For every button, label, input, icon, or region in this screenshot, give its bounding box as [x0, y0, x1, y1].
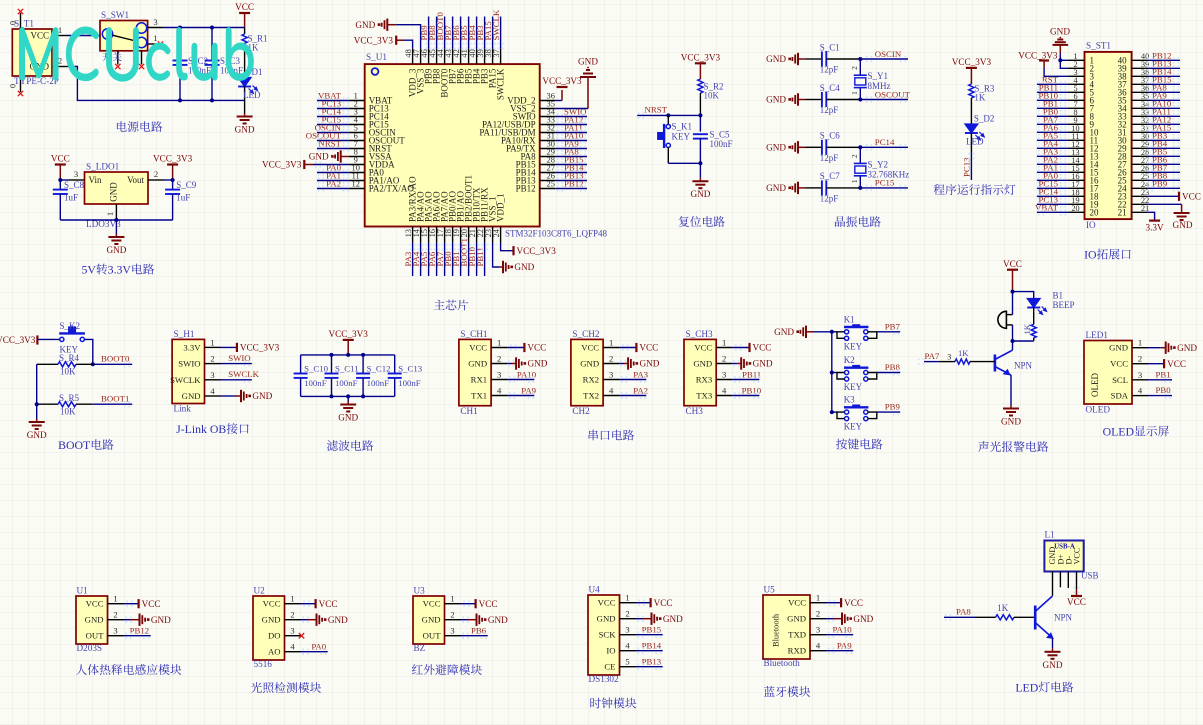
- net label PA4 below U1: [411, 243, 424, 276]
- capacitor S_C1 12pF: [806, 52, 860, 67]
- svg-text:S_C11: S_C11: [335, 364, 359, 374]
- svg-text:GND: GND: [182, 391, 201, 401]
- capacitor S_C12 100nF: [356, 355, 390, 397]
- svg-text:K2: K2: [844, 355, 855, 365]
- capacitor S_C9 1uF: [165, 180, 197, 220]
- svg-text:2: 2: [497, 354, 501, 364]
- svg-text:LED: LED: [243, 90, 261, 100]
- svg-text:USB: USB: [1081, 571, 1099, 581]
- junction at OSCOUT: [858, 98, 862, 102]
- LED S_D2: [965, 114, 995, 153]
- svg-text:NRST: NRST: [319, 138, 342, 148]
- svg-text:GND: GND: [85, 615, 104, 625]
- svg-text:GND: GND: [328, 615, 348, 625]
- label 程序运行指示灯: [934, 184, 1016, 195]
- svg-text:2: 2: [210, 354, 214, 364]
- wire emitter to ground: [1010, 375, 1012, 405]
- svg-text:S_R4: S_R4: [59, 353, 80, 363]
- svg-text:GND: GND: [422, 615, 441, 625]
- svg-text:VCC: VCC: [753, 343, 772, 353]
- svg-text:SWCLK: SWCLK: [491, 9, 501, 40]
- net label PA5 below U1: [419, 243, 432, 276]
- svg-text:1: 1: [113, 594, 117, 604]
- power port VCC at U3 pin1: [461, 599, 498, 609]
- net label OSCIN at U1 pin 5: [315, 122, 350, 135]
- svg-text:3: 3: [722, 370, 726, 380]
- net label PB10 below U1: [467, 243, 480, 276]
- svg-text:VCC_3V3: VCC_3V3: [1018, 51, 1058, 61]
- net label PB13 at U4 pin5: [636, 657, 663, 670]
- net label PB12 at U1 pin3: [124, 626, 151, 639]
- svg-text:VCC: VCC: [319, 599, 338, 609]
- svg-text:3: 3: [290, 626, 294, 636]
- label 复位电路: [679, 216, 725, 227]
- net label PC13 indicator: [962, 152, 975, 180]
- svg-text:GND: GND: [235, 125, 255, 135]
- svg-text:NPN: NPN: [1054, 613, 1073, 623]
- svg-text:100nF: 100nF: [304, 378, 327, 388]
- MCUclub watermark: [19, 27, 253, 81]
- net label PB0 at ST1 pin 8: [1037, 106, 1069, 119]
- svg-text:NRST: NRST: [645, 105, 668, 115]
- svg-text:S_Y1: S_Y1: [868, 71, 889, 81]
- svg-text:1K: 1K: [1022, 323, 1032, 334]
- label 光照检测模块: [251, 682, 321, 693]
- svg-text:PA7: PA7: [925, 351, 940, 361]
- wire alarm bottom rail to collector: [1013, 325, 1034, 350]
- svg-text:OSCIN: OSCIN: [875, 49, 902, 59]
- junction at C9: [171, 178, 175, 182]
- svg-text:5V: 5V: [81, 263, 96, 277]
- net label PC14 at U1 pin 3: [317, 106, 349, 119]
- wire GND to ST1 pins 1-2: [1060, 53, 1068, 68]
- svg-text:3: 3: [609, 370, 613, 380]
- svg-text:1: 1: [850, 179, 859, 183]
- svg-text:IO: IO: [1084, 248, 1097, 262]
- power port VCC at S_CH3: [732, 343, 771, 353]
- svg-text:NPN: NPN: [1014, 361, 1033, 371]
- net label PB10 at ST1 pin 6: [1037, 90, 1069, 103]
- svg-text:1uF: 1uF: [64, 193, 78, 203]
- junction at C8: [58, 178, 62, 182]
- net label PA0 at U1 pin 10: [317, 162, 349, 175]
- wire switch pin3 to VCC rail: [164, 27, 245, 29]
- svg-text:GND: GND: [1050, 27, 1070, 37]
- svg-text:TX1: TX1: [471, 391, 487, 401]
- svg-text:GND: GND: [690, 189, 710, 199]
- svg-text:CH2: CH2: [572, 406, 590, 416]
- power port VCC for LDO: [51, 154, 70, 180]
- capacitor label S_C4: [820, 83, 841, 115]
- net label PA10 at ST1 pin 34: [1147, 98, 1180, 111]
- net label PC14 at ST1 pin 18: [1037, 186, 1069, 199]
- power port VCC_3V3 at LDO output: [153, 154, 193, 180]
- svg-text:5: 5: [625, 657, 629, 667]
- net label PB8 above U1: [427, 17, 440, 50]
- ground GND at H1 pin4: [221, 390, 273, 402]
- label J-Link OB接口: [176, 422, 249, 436]
- ground GND LED circuit: [1043, 648, 1063, 670]
- svg-text:DS1302: DS1302: [589, 674, 620, 684]
- svg-text:PA0: PA0: [311, 642, 326, 652]
- svg-text:S_K2: S_K2: [60, 321, 81, 331]
- svg-text:S_ST1: S_ST1: [1086, 41, 1111, 51]
- svg-text:S_LDO1: S_LDO1: [86, 162, 120, 172]
- net label PC15 at ST1 pin 17: [1037, 178, 1069, 191]
- svg-text:CE: CE: [604, 662, 615, 672]
- net label PB6 at U3 pin3: [461, 626, 488, 639]
- svg-text:12pF: 12pF: [820, 153, 839, 163]
- power port VCC_3V3 at U1 pin 36 VDD_2: [542, 76, 582, 100]
- svg-text:PA9: PA9: [837, 641, 852, 651]
- capacitor S_C7 12pF: [806, 180, 860, 195]
- net label BOOT0: [93, 354, 132, 368]
- net label SWIO at H1 pin2: [221, 353, 252, 367]
- ground GND BOOT circuit: [27, 419, 47, 441]
- svg-text:SCL: SCL: [1112, 375, 1128, 385]
- svg-text:12: 12: [352, 180, 360, 189]
- svg-text:1K: 1K: [997, 603, 1009, 613]
- net label PB3 at ST1 pin 30: [1147, 130, 1180, 143]
- svg-text:VCC: VCC: [263, 599, 281, 609]
- net label PA10 at right of U1: [556, 130, 587, 143]
- svg-text:100nF: 100nF: [710, 139, 733, 149]
- svg-text:Vin: Vin: [89, 175, 102, 185]
- net label PA8 at ST1 pin 36: [1147, 82, 1180, 95]
- svg-text:Bluetooth: Bluetooth: [772, 613, 781, 647]
- svg-text:1: 1: [450, 594, 454, 604]
- connector L1 USB-A: [1044, 530, 1098, 596]
- svg-text:PB14: PB14: [642, 641, 662, 651]
- junction BOOT rail: [35, 402, 39, 406]
- power port VCC_3V3 indicator: [952, 57, 992, 84]
- net label PA12 at right of U1: [556, 114, 587, 127]
- ground GND at U1 pin 35 VSS_2: [556, 57, 599, 109]
- svg-text:S_C7: S_C7: [820, 171, 841, 181]
- svg-text:GND: GND: [1001, 417, 1021, 427]
- capacitor S_C6 12pF: [806, 140, 860, 155]
- net label PB13 at ST1 pin 39: [1147, 58, 1180, 71]
- svg-text:VCC: VCC: [1167, 359, 1186, 369]
- svg-text:LED: LED: [966, 137, 984, 147]
- svg-text:SWCLK: SWCLK: [170, 375, 201, 385]
- svg-text:U5: U5: [764, 585, 776, 595]
- connector S_T1 TYPE-C-2P: [9, 13, 69, 92]
- svg-text:10K: 10K: [704, 91, 720, 101]
- svg-text:4: 4: [625, 641, 630, 651]
- capacitor label S_C6: [820, 131, 841, 163]
- label 开关 under switch: [102, 52, 121, 61]
- svg-text:KEY: KEY: [844, 422, 863, 432]
- net label PB6 at ST1 pin 27: [1147, 154, 1180, 167]
- svg-text:GND: GND: [766, 95, 786, 105]
- key K3 KEY: [832, 395, 877, 432]
- svg-text:PB15: PB15: [642, 625, 662, 635]
- svg-text:VCC: VCC: [86, 599, 104, 609]
- power port VCC_3V3 filter: [329, 329, 369, 355]
- svg-text:GND: GND: [753, 359, 773, 369]
- power port VCC_3V3 at ST1 pin3: [1018, 51, 1068, 77]
- svg-text:S_C12: S_C12: [367, 364, 391, 374]
- svg-text:PA2: PA2: [326, 178, 341, 188]
- svg-text:S_CH1: S_CH1: [460, 329, 487, 339]
- net label PA7 below U1: [435, 243, 448, 276]
- capacitor S_C8 1uF: [53, 180, 85, 220]
- svg-text:S_C9: S_C9: [176, 180, 197, 190]
- wire S_T1 pin2 to ground rail: [68, 67, 245, 101]
- resistor S_R4 10K: [37, 353, 93, 377]
- net label NRST reset: [637, 105, 700, 119]
- ground GND of LDO: [106, 220, 126, 255]
- net label BOOT1: [93, 394, 132, 408]
- label 滤波电路: [327, 440, 373, 451]
- svg-text:GND: GND: [774, 327, 794, 337]
- svg-text:37: 37: [492, 49, 501, 57]
- svg-text:GND: GND: [468, 359, 487, 369]
- svg-text:3: 3: [816, 625, 820, 635]
- junction at PC14: [858, 145, 862, 149]
- net label VBAT at U1 pin 1: [317, 90, 349, 103]
- svg-text:S_CH3: S_CH3: [686, 329, 713, 339]
- svg-text:LED1: LED1: [1086, 330, 1109, 340]
- svg-text:PB1: PB1: [1156, 369, 1171, 379]
- net label PB15 at U4 pin3: [636, 625, 663, 638]
- ground GND at S_CH3: [732, 357, 773, 369]
- microcontroller U1 STM32F103C8T6_LQFP48: [349, 48, 608, 242]
- net label PB12 at right of U1: [556, 178, 587, 191]
- net label PA3 below U1: [403, 243, 416, 276]
- ground GND filter: [338, 396, 358, 422]
- svg-text:GND: GND: [1043, 660, 1063, 670]
- svg-text:1: 1: [850, 91, 859, 95]
- svg-text:GND: GND: [109, 182, 119, 202]
- junction at C5 ground: [698, 161, 702, 165]
- wire BOOT left rail: [36, 364, 38, 418]
- svg-text:1: 1: [105, 212, 115, 216]
- svg-text:Vout: Vout: [127, 175, 144, 185]
- power port VCC at U1 pin1: [124, 599, 161, 609]
- ground GND at U4 pin2: [636, 613, 684, 625]
- module U3 BZ: [413, 586, 461, 654]
- resistor 1K alarm LED: [1022, 323, 1036, 341]
- svg-text:RX2: RX2: [583, 375, 599, 385]
- ground GND at S_C7: [766, 182, 806, 194]
- svg-text:VCC: VCC: [788, 598, 806, 608]
- svg-text:Bluetooth: Bluetooth: [764, 658, 801, 668]
- net label PB8 at K2: [877, 362, 901, 376]
- LED alarm: [1027, 299, 1046, 325]
- svg-text:RXD: RXD: [788, 646, 806, 656]
- svg-text:GND: GND: [766, 54, 786, 64]
- key K1 KEY: [832, 314, 877, 351]
- net label PB4 at ST1 pin 29: [1147, 138, 1180, 151]
- svg-text:KEY: KEY: [844, 341, 863, 351]
- svg-text:D203S: D203S: [77, 643, 103, 653]
- svg-text:S_C4: S_C4: [820, 83, 841, 93]
- svg-text:2: 2: [290, 610, 294, 620]
- svg-text:SDA: SDA: [1111, 391, 1129, 401]
- ground GND at U5 pin2: [826, 613, 874, 625]
- svg-text:2: 2: [1138, 354, 1142, 364]
- ground GND at S_C6: [766, 141, 806, 153]
- svg-text:GND: GND: [578, 57, 598, 67]
- svg-text:VCC_3V3: VCC_3V3: [542, 76, 582, 86]
- junction bottom rail at C3: [210, 98, 214, 102]
- net label PA9 at right of U1: [556, 138, 587, 151]
- svg-text:RX1: RX1: [471, 375, 487, 385]
- capacitor label S_C1: [820, 42, 840, 74]
- capacitor S_C3 100nF: [205, 28, 244, 101]
- net label PB14 at right of U1: [556, 162, 587, 175]
- ground GND at S_CH2: [619, 357, 660, 369]
- no-ERC marker on S_T1 bottom pin: [18, 91, 23, 96]
- net label PB1 at OLED pin3: [1148, 369, 1172, 383]
- net label PA1 at ST1 pin 15: [1037, 162, 1069, 175]
- svg-text:1: 1: [210, 337, 214, 347]
- svg-text:PA8: PA8: [956, 607, 971, 617]
- net label OSCOUT: [860, 89, 910, 102]
- svg-text:PB11: PB11: [475, 247, 485, 266]
- svg-text:PB6: PB6: [471, 626, 487, 636]
- svg-text:2: 2: [625, 609, 629, 619]
- svg-text:U3: U3: [414, 586, 426, 596]
- net label PB1 at ST1 pin 7: [1037, 98, 1069, 111]
- crystal S_Y2 32.768KHz: [850, 147, 909, 188]
- svg-text:2: 2: [722, 354, 726, 364]
- svg-text:K1: K1: [844, 314, 855, 324]
- net label PB6 above U1: [451, 17, 464, 50]
- svg-text:GND: GND: [597, 614, 616, 624]
- ground GND at U1 pin 8 VSSA: [309, 150, 349, 162]
- net label PB12 at ST1 pin 40: [1147, 50, 1180, 63]
- no-ERC marker on S_T1 top pin: [18, 9, 23, 14]
- svg-text:VCC_3V3: VCC_3V3: [240, 343, 280, 353]
- svg-text:VCC: VCC: [1182, 192, 1201, 202]
- svg-text:GND: GND: [355, 20, 375, 30]
- svg-text:PB0: PB0: [1156, 385, 1172, 395]
- svg-text:DO: DO: [268, 631, 281, 641]
- svg-text:PB12: PB12: [516, 184, 536, 194]
- svg-text:SWIO: SWIO: [178, 359, 200, 369]
- junction BOOT0 node: [91, 362, 95, 366]
- ground GND at U1 pin 23 VSS_1: [493, 243, 535, 273]
- power port VCC_3V3 at U1 pin 48 VDD_3: [354, 36, 413, 49]
- net label PA12 at ST1 pin 32: [1147, 114, 1180, 127]
- svg-text:3: 3: [625, 625, 629, 635]
- svg-text:1: 1: [722, 338, 726, 348]
- svg-text:IO: IO: [606, 646, 615, 656]
- net label PA15 at ST1 pin 31: [1147, 122, 1180, 135]
- svg-text:100nF: 100nF: [398, 378, 421, 388]
- net label PA0 at U2 pin4: [301, 642, 328, 655]
- junction ST1 pin1: [1058, 58, 1062, 62]
- svg-text:VCC_3V3: VCC_3V3: [517, 246, 557, 256]
- svg-text:GND: GND: [1109, 343, 1128, 353]
- net label PA10 at U5 pin3: [826, 625, 853, 638]
- net label PB11 at ST1 pin 5: [1037, 82, 1069, 95]
- net label PB11 at S_CH3: [732, 369, 761, 382]
- net label PA9 at ST1 pin 35: [1147, 90, 1180, 103]
- svg-text:4: 4: [1138, 386, 1143, 396]
- LED D1: [238, 67, 262, 113]
- junction on VCC rail at C2: [178, 26, 182, 30]
- svg-text:CH3: CH3: [686, 406, 704, 416]
- key S_K2 KEY: [59, 321, 85, 355]
- resistor 1K at PA7: [940, 348, 995, 364]
- capacitor label S_C7: [820, 171, 841, 203]
- label 5V转3.3V电路: [81, 263, 154, 277]
- resistor S_R5 10K: [37, 393, 93, 417]
- ground GND at S_C1: [766, 53, 806, 65]
- wire VCC_3V3 to K2: [37, 338, 59, 340]
- svg-text:S_SW1: S_SW1: [101, 10, 129, 20]
- no-ERC marker at U2 pin3: [299, 633, 304, 638]
- buzzer B1 BEEP: [998, 291, 1075, 329]
- net label PC14: [860, 137, 908, 150]
- svg-text:GND: GND: [693, 359, 712, 369]
- wire NRST node down to C5: [699, 115, 701, 131]
- svg-text:AO: AO: [268, 647, 281, 657]
- svg-text:BZ: BZ: [414, 643, 426, 653]
- svg-text:VCC: VCC: [479, 599, 498, 609]
- svg-text:CH1: CH1: [460, 406, 478, 416]
- power port VCC at U5 pin1: [826, 598, 863, 608]
- svg-text:1: 1: [609, 338, 613, 348]
- svg-text:S_C6: S_C6: [820, 131, 841, 141]
- svg-text:KEY: KEY: [672, 131, 691, 141]
- svg-text:2: 2: [850, 154, 859, 158]
- ground rail wire of LDO: [60, 219, 172, 221]
- junction NRST node: [698, 113, 702, 117]
- svg-text:GND: GND: [309, 152, 329, 162]
- power port VCC_3V3 BOOT circuit: [0, 335, 37, 345]
- label 晶振电路: [835, 216, 881, 227]
- connector S_CH1: [459, 329, 507, 416]
- net label PB9 above U1: [419, 17, 432, 50]
- svg-text:GND: GND: [27, 430, 47, 440]
- net label PA0 at ST1 pin 16: [1037, 170, 1069, 183]
- svg-text:GND: GND: [106, 245, 126, 255]
- display connector LED1 OLED: [1084, 330, 1148, 415]
- svg-text:GND: GND: [853, 614, 873, 624]
- label 人体热释电感应模块: [76, 664, 181, 675]
- transistor NPN alarm: [995, 350, 1033, 375]
- svg-text:GND: GND: [514, 262, 534, 272]
- svg-text:32.768KHz: 32.768KHz: [868, 169, 910, 179]
- svg-text:S_C8: S_C8: [64, 180, 85, 190]
- net label BOOT0 above U1: [435, 12, 448, 50]
- label 时钟模块: [590, 698, 636, 709]
- filter bottom rail wire: [301, 395, 395, 397]
- net label PB9 at ST1 pin 24: [1147, 178, 1180, 191]
- svg-text:VCC: VCC: [423, 599, 441, 609]
- wire K2 to BOOT0 node: [85, 339, 93, 364]
- svg-text:VCC: VCC: [235, 2, 254, 12]
- label 红外避障模块: [412, 664, 482, 675]
- junction on VCC rail at C3: [210, 26, 214, 30]
- net label SWCLK above U1: [491, 9, 504, 49]
- net label SWIO at right of U1: [556, 106, 587, 119]
- module U1 D203S: [76, 586, 124, 654]
- power port VCC at ST1 pin23: [1148, 192, 1201, 202]
- svg-text:S_R5: S_R5: [59, 393, 80, 403]
- wire S_T1 pin1 to switch: [68, 35, 100, 37]
- svg-text:U4: U4: [589, 585, 601, 595]
- svg-text:1K: 1K: [958, 348, 969, 358]
- svg-text:VCC_3V3: VCC_3V3: [681, 53, 721, 63]
- capacitor S_C2 100nF: [173, 28, 212, 101]
- svg-text:VCC: VCC: [581, 343, 599, 353]
